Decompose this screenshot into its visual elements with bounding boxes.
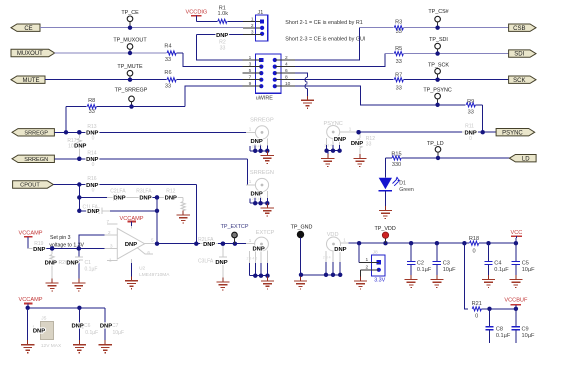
capacitor C9 10uF [512, 309, 535, 343]
capacitor C2 0.1uF [407, 243, 432, 279]
svg-text:6: 6 [147, 250, 150, 255]
svg-text:SRREGP: SRREGP [250, 117, 274, 123]
wire uWIRE pin6 to ground with hops [295, 73, 308, 100]
svg-text:R14: R14 [87, 151, 96, 157]
svg-text:1: 1 [349, 126, 352, 131]
svg-text:TP_CS#: TP_CS# [428, 9, 448, 15]
svg-text:VCC: VCC [510, 230, 522, 236]
resistor R6 33 [164, 70, 242, 90]
svg-text:C6: C6 [84, 323, 91, 329]
svg-text:10µF: 10µF [522, 333, 535, 339]
wire CPOUT line [53, 182, 86, 186]
svg-text:2 3 4: 2 3 4 [324, 143, 332, 147]
svg-text:VCCDIG: VCCDIG [186, 10, 208, 16]
resistor R20 DNP to ground [45, 246, 68, 283]
resistor R21 0 [472, 301, 519, 319]
svg-text:5: 5 [151, 237, 154, 242]
resistor R12 DNP to ground [351, 130, 375, 159]
resistor R7 33 [295, 72, 509, 91]
wire uWIRE pin2 to CSB row [295, 28, 360, 60]
svg-text:DNP: DNP [464, 131, 476, 137]
ground R20 [46, 279, 59, 292]
resistor R2LFA DNP series output [198, 237, 246, 248]
ground C7 [99, 340, 112, 353]
wire feedback vertical [156, 197, 158, 243]
svg-text:DNP: DNP [113, 196, 125, 202]
wire op-amp pin2 link [79, 235, 105, 249]
U2 reference labels [139, 266, 170, 278]
svg-text:Short 2-3 = CE is enabled by G: Short 2-3 = CE is enabled by GUI [285, 37, 365, 43]
wire SRREGN to SMA [246, 159, 248, 185]
svg-text:DNP: DNP [252, 247, 264, 253]
svg-text:C3: C3 [443, 260, 450, 266]
SMA connector EXTCP DNP [246, 230, 275, 281]
svg-text:R8: R8 [88, 98, 95, 104]
svg-text:uWIRE: uWIRE [256, 96, 273, 102]
resistor R5 33 [385, 46, 509, 65]
op-amp U2 LME49710MA DNP [104, 219, 157, 263]
resistor R17 100 DNP vertical [67, 130, 86, 161]
svg-text:0: 0 [472, 248, 475, 254]
test point TP_SCK [428, 63, 449, 82]
svg-text:C2LFA: C2LFA [110, 188, 126, 194]
svg-text:1: 1 [251, 16, 254, 22]
svg-text:TP_SRREGP: TP_SRREGP [115, 88, 148, 94]
svg-text:CPOUT: CPOUT [20, 183, 40, 189]
svg-text:DNP: DNP [334, 247, 346, 253]
svg-text:C4: C4 [494, 260, 501, 266]
test point TP_SDI [429, 37, 448, 56]
capacitor C5 10uF [512, 243, 535, 279]
J1 pin numbers [251, 16, 254, 35]
note short 2-1 [285, 20, 362, 26]
port tag MUTE [11, 76, 45, 84]
svg-text:DNP: DNP [100, 323, 112, 329]
svg-text:DNP: DNP [165, 196, 177, 202]
svg-text:10µF: 10µF [443, 267, 456, 273]
svg-text:DNP: DNP [139, 196, 151, 202]
svg-text:D1: D1 [399, 180, 406, 186]
svg-text:MUTE: MUTE [23, 78, 40, 84]
wire R8 row to uWIRE pin9 [185, 86, 243, 106]
ground C1 [72, 279, 85, 292]
wire CE tag to J1 pin2 [40, 27, 262, 29]
power VCC [510, 230, 522, 243]
svg-text:7: 7 [106, 219, 109, 224]
svg-text:4: 4 [285, 61, 288, 67]
svg-text:9: 9 [249, 81, 252, 87]
svg-text:330: 330 [392, 162, 401, 168]
svg-text:DNP: DNP [203, 242, 215, 248]
wire VDD rail to R21 [464, 243, 468, 309]
ground C4 [482, 275, 495, 288]
svg-text:1: 1 [249, 127, 252, 132]
svg-text:LME49710MA: LME49710MA [139, 272, 170, 278]
header J8 [366, 250, 386, 284]
SMA connector PSYNC DNP [324, 121, 359, 159]
svg-text:12V MAX: 12V MAX [41, 343, 62, 349]
capacitor C1 0.1uF DNP [66, 246, 97, 283]
svg-text:TP_SDI: TP_SDI [429, 37, 448, 43]
svg-text:33: 33 [165, 57, 171, 63]
svg-text:0.1µF: 0.1µF [496, 333, 511, 339]
ground C5 [509, 275, 522, 288]
ground C3LFA [216, 278, 229, 291]
svg-text:DNP: DNP [74, 144, 86, 150]
svg-text:DNP: DNP [71, 323, 83, 329]
wire CPOUT branch vertical [77, 185, 81, 214]
svg-text:DNP: DNP [351, 141, 363, 147]
svg-text:R6: R6 [164, 70, 171, 76]
wire uWIRE pin4 to SDI row [295, 54, 385, 67]
power VCCAMP op-amp top [120, 216, 144, 226]
wire CPOUT down to op-amp output [195, 185, 197, 244]
ground C3 [430, 275, 443, 288]
wire VDD rail [348, 241, 518, 245]
svg-text:8: 8 [285, 75, 288, 81]
svg-text:DNP: DNP [33, 247, 45, 253]
resistor R9 33 [438, 99, 483, 116]
svg-text:C1: C1 [85, 260, 92, 266]
test point TP_MUXOUT [113, 38, 147, 56]
svg-text:2: 2 [285, 55, 288, 61]
resistor R16 DNP series CPOUT [86, 176, 196, 194]
wire J1 pin3 to uWIRE pin1 [197, 35, 243, 60]
test point TP_GND [291, 225, 313, 275]
port tag SCK [509, 76, 536, 84]
svg-text:0: 0 [469, 136, 472, 142]
ground SRREGP SMA [261, 151, 274, 164]
svg-text:10: 10 [285, 81, 291, 87]
power VCCBUF [504, 298, 528, 309]
port tag SDI [509, 50, 536, 58]
ground EXTCP SMA [261, 276, 274, 289]
capacitor C1LFA DNP row [79, 204, 159, 215]
svg-text:DNP: DNP [86, 183, 98, 189]
capacitor C6 0.1uF DNP [71, 308, 98, 345]
ground PSYNC SMA [321, 154, 334, 167]
wire op-amp output [155, 242, 200, 246]
svg-text:2 3 4 5: 2 3 4 5 [247, 257, 258, 261]
svg-text:TP_VDD: TP_VDD [374, 226, 395, 232]
svg-text:0: 0 [475, 313, 478, 319]
svg-text:DNP: DNP [45, 260, 57, 266]
svg-text:3: 3 [110, 243, 113, 248]
svg-text:Short 2-1 = CE is enabled by R: Short 2-1 = CE is enabled by R1 [285, 20, 362, 26]
svg-text:TP_LD: TP_LD [427, 141, 444, 147]
note short 2-3 [285, 37, 365, 43]
wire J8 pin1 to VDD rail [359, 243, 379, 262]
svg-text:DNP: DNP [87, 209, 99, 215]
power VCCAMP op-amp bias [19, 231, 43, 249]
ground C2 [405, 275, 418, 288]
svg-text:33: 33 [396, 85, 402, 91]
svg-text:R13: R13 [87, 124, 96, 130]
ground battery [21, 340, 34, 353]
svg-text:7: 7 [249, 75, 252, 81]
svg-text:VCCAMP: VCCAMP [19, 297, 43, 303]
svg-text:R3LFA: R3LFA [136, 188, 152, 194]
capacitor C3 10uF [433, 243, 456, 279]
ground C6 [73, 340, 86, 353]
resistor R19 DNP series [28, 241, 104, 253]
power VCCDIG [186, 10, 208, 22]
svg-text:LD: LD [522, 156, 530, 162]
ground TP_GND [294, 277, 307, 290]
ground R12 [353, 154, 366, 167]
header J2 uWIRE [243, 54, 296, 102]
header J1 [256, 10, 268, 41]
svg-text:TP_EXTCP: TP_EXTCP [221, 224, 249, 230]
wire battery rail [26, 306, 106, 310]
svg-text:10µF: 10µF [522, 267, 535, 273]
resistor R3 33 [360, 20, 509, 35]
svg-text:1: 1 [249, 55, 252, 61]
ground J8 [354, 277, 367, 290]
svg-text:0.1µF: 0.1µF [85, 330, 98, 336]
svg-text:0.1µF: 0.1µF [494, 267, 509, 273]
svg-text:C2: C2 [417, 260, 424, 266]
svg-text:U2: U2 [139, 266, 145, 272]
svg-text:1: 1 [109, 257, 112, 262]
resistor R12A DNP to ground [155, 188, 185, 215]
resistor R13 DNP series SRREGP [86, 124, 246, 142]
svg-text:DNP: DNP [125, 242, 137, 248]
wire J8 pin2 to ground [361, 270, 379, 281]
svg-text:3: 3 [249, 61, 252, 67]
svg-text:C5: C5 [522, 260, 529, 266]
svg-text:33: 33 [396, 59, 402, 65]
svg-text:33: 33 [165, 84, 171, 90]
port tag CE [11, 24, 40, 32]
svg-text:Set pin 3: Set pin 3 [50, 235, 71, 241]
svg-text:Green: Green [399, 187, 414, 193]
svg-text:33: 33 [366, 142, 372, 148]
SMA connector VDD DNP [299, 232, 349, 277]
svg-text:VCCBUF: VCCBUF [504, 298, 528, 304]
resistor R18 0 [469, 236, 479, 254]
svg-text:SCK: SCK [513, 78, 525, 84]
port tag SRREGP [12, 129, 54, 137]
svg-text:2: 2 [108, 230, 111, 235]
resistor R8 33 [66, 98, 185, 115]
svg-text:C3LFA: C3LFA [198, 258, 214, 264]
svg-text:SRREGP: SRREGP [24, 130, 48, 136]
capacitor C8 0.1uF [485, 309, 511, 343]
note set pin 3 [49, 235, 84, 248]
svg-text:2: 2 [251, 23, 254, 29]
svg-text:TP_PSYNC: TP_PSYNC [423, 88, 452, 94]
SMA connector SRREGN DNP [246, 170, 274, 208]
capacitor C7 10uF DNP [100, 308, 124, 345]
svg-text:33: 33 [468, 110, 474, 116]
port tag CSB [509, 24, 536, 32]
svg-text:TP_MUTE: TP_MUTE [117, 64, 143, 70]
ground LED D1 [379, 206, 392, 219]
test point TP_CE [121, 10, 139, 30]
svg-text:TP_GND: TP_GND [291, 225, 313, 231]
svg-text:10µF: 10µF [113, 330, 125, 336]
resistor R1 1.0k [196, 5, 262, 23]
port tag LD [509, 155, 536, 163]
wire MUTE to R6 [45, 79, 166, 81]
svg-text:SRREGN: SRREGN [250, 170, 274, 176]
resistor R11 DNP series PSYNC [462, 124, 496, 142]
resistor R15 330 [385, 151, 509, 168]
port tag SRREGN [12, 155, 54, 163]
svg-text:C7: C7 [112, 323, 119, 329]
svg-text:VCCAMP: VCCAMP [19, 231, 43, 237]
test point TP_PSYNC [423, 88, 452, 107]
svg-text:DNP: DNP [86, 131, 98, 137]
svg-text:SDI: SDI [514, 52, 524, 58]
svg-text:1: 1 [249, 238, 252, 243]
svg-text:1: 1 [249, 179, 252, 184]
resistor R2 DNP on J1 pin3 wire [197, 33, 262, 52]
wire uWIRE pin10 to PSYNC row [295, 86, 438, 105]
svg-text:R4: R4 [164, 44, 171, 50]
LED D1 Green [379, 158, 414, 211]
resistor R4 33 [164, 44, 183, 63]
svg-text:TP_CE: TP_CE [121, 10, 139, 16]
wire PSYNC SMA to tag [356, 130, 462, 134]
uWIRE pin numbers [249, 55, 291, 87]
svg-text:33: 33 [220, 45, 226, 51]
test point TP_SRREGP [115, 88, 148, 109]
wire R4 to uWIRE pin3 [183, 53, 242, 67]
svg-text:SRREGN: SRREGN [24, 157, 48, 163]
wire SRREGN line [54, 157, 86, 161]
capacitor C2LFA DNP and resistor R3LFA DNP row [79, 188, 159, 201]
svg-text:EXTCP: EXTCP [256, 230, 275, 236]
svg-text:DNP: DNP [86, 157, 98, 163]
port tag CPOUT [13, 181, 54, 189]
wire op-amp pin4 to ground [131, 263, 133, 281]
capacitor C4 0.1uF [484, 243, 509, 279]
svg-text:1: 1 [343, 237, 346, 242]
test point TP_CS# [428, 9, 448, 30]
svg-text:3.3V: 3.3V [374, 278, 385, 284]
svg-text:C8: C8 [496, 326, 503, 332]
svg-text:0.1µF: 0.1µF [417, 267, 432, 273]
wire SRREGP line [54, 130, 86, 134]
ground SRREGN SMA [261, 203, 274, 216]
svg-text:6: 6 [285, 68, 288, 74]
connector J5 battery DNP [28, 308, 62, 349]
wire R8 to SRREGP line [65, 107, 67, 133]
svg-text:CSB: CSB [513, 26, 525, 32]
ground uWIRE pin6 [301, 96, 314, 109]
port tag MUXOUT [11, 49, 55, 57]
svg-text:TP_SCK: TP_SCK [428, 63, 449, 69]
svg-text:DNP: DNP [334, 137, 346, 143]
svg-text:R16: R16 [87, 176, 96, 182]
wire R9 down to PSYNC tag line [482, 105, 484, 132]
capacitor C3LFA DNP to ground [198, 242, 228, 283]
svg-text:R12: R12 [166, 188, 175, 194]
svg-text:DNP: DNP [216, 33, 228, 39]
svg-text:PSYNC: PSYNC [502, 130, 523, 136]
test point TP_MUTE [117, 64, 143, 82]
svg-text:R11: R11 [465, 124, 474, 130]
resistor R14 DNP series SRREGN [86, 151, 247, 169]
svg-text:DNP: DNP [33, 329, 45, 335]
port tag PSYNC [496, 129, 535, 137]
test point TP_EXTCP [221, 224, 249, 244]
SMA connector SRREGP DNP [246, 117, 274, 155]
test point TP_LD [427, 141, 444, 160]
svg-text:0.1µF: 0.1µF [85, 266, 98, 272]
ground R12A [177, 211, 190, 224]
ground op-amp [125, 276, 138, 289]
svg-text:DNP: DNP [66, 260, 78, 266]
svg-text:DNP: DNP [215, 260, 227, 266]
wire MUXOUT to R4 [55, 52, 167, 54]
svg-text:C9: C9 [522, 326, 529, 332]
svg-text:J5: J5 [41, 316, 46, 322]
svg-text:MUXOUT: MUXOUT [17, 51, 43, 57]
test point TP_VDD [374, 226, 395, 243]
svg-text:5: 5 [249, 68, 252, 74]
svg-text:2 3 4: 2 3 4 [323, 256, 331, 260]
svg-text:CE: CE [24, 26, 32, 32]
power VCCAMP battery [19, 297, 43, 308]
svg-text:TP_MUXOUT: TP_MUXOUT [113, 38, 147, 44]
svg-text:1.0k: 1.0k [218, 11, 229, 17]
